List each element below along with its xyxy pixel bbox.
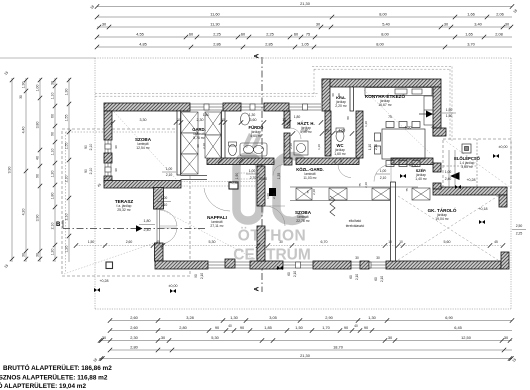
dimension column left col 4 <box>51 78 58 262</box>
svg-text:2,10: 2,10 <box>380 176 387 180</box>
room label KOZL-GARD <box>296 167 323 180</box>
svg-text:2,10: 2,10 <box>364 182 368 188</box>
svg-text:3,30: 3,30 <box>140 118 147 122</box>
partition wall partition gard-furdo <box>222 111 226 158</box>
svg-text:11,03 m²: 11,03 m² <box>303 176 317 180</box>
section line B-B <box>56 220 205 232</box>
svg-text:16,67 m²: 16,67 m² <box>378 103 392 107</box>
wall entry east wall upper <box>433 163 441 172</box>
wall south wall seg 2 <box>250 261 283 269</box>
room label SZOBA 1 <box>135 137 152 150</box>
wall south-east corner column <box>501 252 509 269</box>
svg-text:1,90: 1,90 <box>235 173 239 180</box>
svg-text:60: 60 <box>374 277 378 281</box>
room label HAZT H <box>297 121 314 134</box>
svg-text:1,50: 1,50 <box>446 108 453 112</box>
svg-text:1,30: 1,30 <box>65 89 69 96</box>
kitchen counter <box>365 88 432 96</box>
svg-text:90: 90 <box>84 145 88 149</box>
svg-text:1,40 m²: 1,40 m² <box>415 177 427 181</box>
svg-text:75: 75 <box>306 31 310 36</box>
svg-text:90: 90 <box>36 174 40 178</box>
svg-text:2,40: 2,40 <box>144 228 151 232</box>
wardrobe wardrobe 3 <box>372 188 390 200</box>
wall entry east wall lower <box>433 183 441 189</box>
svg-text:2,30: 2,30 <box>302 129 309 133</box>
svg-text:19,04 m²: 19,04 m² <box>435 217 449 221</box>
svg-text:2,30: 2,30 <box>197 118 204 122</box>
window window SZOBA2 south b <box>351 262 386 268</box>
insulation mark mark 6 <box>479 220 485 224</box>
terrace roof dashed rectangle <box>62 129 190 276</box>
svg-text:21,30: 21,30 <box>300 1 311 6</box>
wall south wall garage <box>386 261 501 269</box>
wall wall nappali-szoba lower <box>257 226 265 261</box>
svg-text:45: 45 <box>156 240 160 244</box>
svg-text:1,00: 1,00 <box>380 169 387 173</box>
svg-text:1,80: 1,80 <box>51 193 55 200</box>
room label KRA <box>335 95 347 108</box>
wall corridor north wall east <box>296 158 359 165</box>
svg-text:3,40: 3,40 <box>474 21 482 26</box>
svg-text:75: 75 <box>333 160 337 164</box>
partition wall KRA east partition <box>350 87 354 111</box>
garage diagonal cross <box>398 196 498 260</box>
terrace hip dotted <box>64 243 154 274</box>
svg-text:90: 90 <box>196 144 200 148</box>
wardrobe wardrobe 4 <box>412 188 430 200</box>
watermark logo OC <box>237 134 304 221</box>
svg-text:2,80: 2,80 <box>179 325 187 330</box>
partition wall partition szoba-gard <box>177 111 181 175</box>
svg-text:A: A <box>254 286 261 291</box>
wall wall wc-konyha <box>356 111 363 158</box>
svg-text:3,05: 3,05 <box>269 315 277 320</box>
dimension row bottom row A <box>108 315 514 323</box>
svg-text:10: 10 <box>399 240 403 244</box>
svg-text:4,85: 4,85 <box>139 41 147 46</box>
svg-text:BRUTTÓ ALAPTERÜLET: 186,86 m2: BRUTTÓ ALAPTERÜLET: 186,86 m2 <box>3 363 112 372</box>
svg-text:45: 45 <box>431 126 435 130</box>
svg-text:+0,28: +0,28 <box>99 279 108 283</box>
svg-text:B: B <box>56 222 61 228</box>
insulation mark mark 1 <box>94 288 100 292</box>
svg-text:6,70: 6,70 <box>321 240 328 244</box>
svg-text:30: 30 <box>51 81 55 85</box>
wall north wall kitchen <box>322 79 441 87</box>
terrace door opening cap <box>154 208 164 210</box>
svg-text:1,05: 1,05 <box>301 41 309 46</box>
svg-text:1,66: 1,66 <box>467 11 475 16</box>
svg-text:2,10: 2,10 <box>51 223 55 230</box>
svg-text:2,60: 2,60 <box>130 325 138 330</box>
svg-text:1,55: 1,55 <box>65 143 69 150</box>
svg-text:1,00: 1,00 <box>339 129 346 133</box>
svg-text:2,40: 2,40 <box>445 177 452 181</box>
svg-text:+0,18: +0,18 <box>478 207 487 211</box>
room label NAPPALI <box>207 215 227 228</box>
dimension column left col 5 <box>65 78 72 262</box>
svg-text:6,45: 6,45 <box>454 325 462 330</box>
wall corridor pier <box>284 158 292 165</box>
sliding partition zigzag <box>330 196 335 216</box>
svg-text:1,30: 1,30 <box>249 113 256 117</box>
dimension row bottom row B <box>108 325 512 333</box>
terrace door swing upper <box>160 210 177 226</box>
wardrobe gard closet 5 <box>205 135 221 158</box>
svg-text:3,80: 3,80 <box>36 122 40 129</box>
window window FURDO 1.30 <box>241 104 264 110</box>
SR20 beam dotted <box>238 172 257 174</box>
svg-text:2,20 m²: 2,20 m² <box>335 104 347 108</box>
svg-text:30: 30 <box>376 256 380 260</box>
svg-text:4,30: 4,30 <box>405 126 412 130</box>
window window SZOBA2 south a <box>283 262 313 268</box>
svg-text:5,40: 5,40 <box>382 21 390 26</box>
dimension row top row 1 <box>95 1 514 9</box>
wall east wall corner cap <box>433 128 446 136</box>
interior dim row ticks y122 <box>111 120 323 124</box>
svg-text:1,10: 1,10 <box>364 121 368 127</box>
svg-text:60: 60 <box>51 114 55 118</box>
svg-text:eltolható: eltolható <box>349 219 362 223</box>
svg-text:2,70: 2,70 <box>250 176 257 180</box>
svg-text:4,20: 4,20 <box>22 209 26 216</box>
svg-text:2,10: 2,10 <box>312 189 316 195</box>
entry steps <box>449 150 455 187</box>
dimension row top row 4 <box>95 31 512 39</box>
wall south wall west stub <box>155 243 164 261</box>
site boundary dotted rectangle <box>0 58 511 309</box>
roof slope diagonal SZOBA1 <box>114 112 176 179</box>
svg-text:4,40: 4,40 <box>22 127 26 134</box>
svg-text:12,50: 12,50 <box>461 335 472 340</box>
column SR20 <box>269 188 276 196</box>
svg-text:2,10: 2,10 <box>339 159 343 165</box>
svg-text:1,80: 1,80 <box>203 113 210 117</box>
svg-text:4,60 m²: 4,60 m² <box>250 134 262 138</box>
svg-text:2,25: 2,25 <box>516 232 523 236</box>
svg-text:3,90: 3,90 <box>36 215 40 222</box>
gard south wall thin <box>181 175 208 177</box>
svg-text:75: 75 <box>283 144 287 148</box>
wall KRA west wall <box>322 79 330 111</box>
svg-text:5,76 m²: 5,76 m² <box>193 136 205 140</box>
svg-text:1,10: 1,10 <box>317 144 321 150</box>
svg-text:1,20: 1,20 <box>51 171 55 178</box>
svg-text:12,54 m²: 12,54 m² <box>136 146 150 150</box>
furdo door swing <box>273 165 284 176</box>
svg-text:90: 90 <box>114 145 118 149</box>
svg-text:2,10: 2,10 <box>161 203 168 207</box>
svg-text:2,10: 2,10 <box>355 274 359 280</box>
svg-text:1,10: 1,10 <box>368 144 372 150</box>
room label SZEP <box>415 168 427 181</box>
window window GARD 1.80 <box>190 104 223 110</box>
svg-text:1,60 m²: 1,60 m² <box>334 152 346 156</box>
svg-text:8,00: 8,00 <box>381 31 389 36</box>
wall west wall lower <box>104 176 112 182</box>
svg-text:11,60: 11,60 <box>210 11 220 16</box>
wall south wall pier B <box>360 261 369 269</box>
svg-text:±0,00: ±0,00 <box>169 284 178 288</box>
roof slope diagonal NAPPALI <box>164 211 255 259</box>
room label KONYHA <box>365 92 405 107</box>
svg-text:90: 90 <box>114 168 118 172</box>
insulation mark mark 4 <box>400 174 406 178</box>
terrace door swing lower <box>160 228 177 244</box>
svg-text:ÖTTHON: ÖTTHON <box>238 228 306 245</box>
dimension row top row 3 <box>97 21 513 29</box>
room label GK TAROLO <box>428 206 457 221</box>
svg-text:18,70: 18,70 <box>333 344 344 349</box>
wardrobe wardrobe 2 <box>329 188 347 200</box>
svg-text:3,70: 3,70 <box>467 41 475 46</box>
svg-text:+0,28: +0,28 <box>466 178 475 182</box>
room label ELOLEPCSO <box>454 156 481 169</box>
svg-text:40: 40 <box>36 156 40 160</box>
insulation mark mark 7 <box>455 185 461 189</box>
roof overhang dotted lines <box>95 67 452 143</box>
interior dimension row <box>74 243 505 247</box>
window window NAPPALI south <box>208 262 250 268</box>
svg-text:2,10: 2,10 <box>65 214 69 221</box>
svg-text:2,60: 2,60 <box>126 240 133 244</box>
front door leaf <box>450 172 460 180</box>
chimney square <box>462 144 471 153</box>
svg-text:90: 90 <box>337 93 341 97</box>
svg-text:30: 30 <box>22 253 26 257</box>
svg-text:30: 30 <box>19 95 23 99</box>
window window SZOBA1 b <box>105 163 111 176</box>
svg-text:90: 90 <box>51 132 55 136</box>
svg-text:40: 40 <box>354 324 358 328</box>
insulation mark mark 1b <box>170 289 176 293</box>
dimension row bottom row D <box>108 344 512 352</box>
section line A-A <box>261 57 263 292</box>
svg-text:10: 10 <box>388 240 392 244</box>
svg-text:2,60: 2,60 <box>130 315 138 320</box>
svg-text:30: 30 <box>36 253 40 257</box>
window window SZOBA1 a <box>105 140 111 153</box>
svg-text:21,30: 21,30 <box>300 353 311 358</box>
svg-text:1,20: 1,20 <box>51 249 55 256</box>
wardrobe wardrobe 1 <box>296 188 312 200</box>
svg-text:22,78 m²: 22,78 m² <box>296 219 310 223</box>
svg-text:3,28: 3,28 <box>186 315 194 320</box>
svg-text:75: 75 <box>306 190 310 194</box>
wardrobe gard closet 2 <box>181 133 198 154</box>
svg-text:1,80: 1,80 <box>294 115 301 119</box>
window window HAZT 1.80 <box>289 104 321 110</box>
svg-text:25,32 m²: 25,32 m² <box>117 208 131 212</box>
wc door swing <box>338 165 351 178</box>
roof slope diagonal KONYHA <box>364 90 431 154</box>
svg-text:2,10: 2,10 <box>89 144 93 151</box>
insulation mark mark 5 <box>493 154 499 158</box>
svg-text:1,55: 1,55 <box>65 115 69 122</box>
room label WC <box>334 143 346 156</box>
svg-text:2,30: 2,30 <box>130 335 138 340</box>
svg-text:térelválasztó: térelválasztó <box>346 224 365 228</box>
bathtub / basin FURDO <box>240 143 267 156</box>
washing machine HAZT <box>294 141 308 155</box>
svg-text:1,65: 1,65 <box>465 31 473 36</box>
svg-text:75: 75 <box>405 188 409 192</box>
wall wall furdo-hazt upper <box>284 111 290 128</box>
svg-text:3,65 m²: 3,65 m² <box>461 165 473 169</box>
svg-text:75: 75 <box>358 183 362 187</box>
svg-text:3,60: 3,60 <box>250 118 257 122</box>
svg-text:+0,30: +0,30 <box>408 164 417 168</box>
svg-text:1,00: 1,00 <box>166 167 173 171</box>
wall south wall pier A <box>225 259 235 268</box>
svg-text:10: 10 <box>177 118 181 122</box>
svg-text:±0,00: ±0,00 <box>499 145 508 149</box>
wall terrace east wall leg <box>154 188 164 210</box>
porch diagonal <box>443 139 511 188</box>
svg-text:1,50: 1,50 <box>88 240 95 244</box>
wall west wall upper <box>104 111 112 140</box>
toilet WC <box>336 128 344 142</box>
dimension row top row 2 <box>95 11 512 19</box>
svg-text:45: 45 <box>494 240 498 244</box>
svg-text:2,06: 2,06 <box>496 11 504 16</box>
dimension column left col 3 <box>36 78 43 262</box>
svg-text:8,00: 8,00 <box>376 41 384 46</box>
svg-text:1,35: 1,35 <box>277 173 281 180</box>
svg-text:2,10: 2,10 <box>89 168 93 175</box>
wardrobe gard closet 4 <box>205 112 221 135</box>
wall north wall pier 1 <box>223 103 241 111</box>
svg-text:2,86: 2,86 <box>213 41 221 46</box>
wall corridor north wall west <box>207 158 274 165</box>
wall wall hazt-wc <box>325 111 331 156</box>
svg-text:10: 10 <box>221 118 225 122</box>
szoba2 door swing <box>265 206 285 226</box>
toilet FURDO <box>229 142 237 156</box>
terrace sliding door track <box>156 209 158 246</box>
washbasin FURDO <box>241 113 250 125</box>
pillar SR20 support <box>229 182 238 189</box>
svg-text:+0,30: +0,30 <box>229 181 238 185</box>
room label TERASZ <box>115 199 134 212</box>
svg-text:1,30: 1,30 <box>230 315 238 320</box>
svg-text:1,50: 1,50 <box>446 114 453 118</box>
svg-text:10: 10 <box>325 129 329 133</box>
terrace pillar <box>106 262 113 269</box>
kitchen counter east <box>424 96 433 125</box>
wall south wall seg 3 <box>313 261 351 269</box>
wardrobe strip frame <box>290 187 418 201</box>
svg-text:1,00: 1,00 <box>445 170 452 174</box>
dimension row bottom row E <box>99 353 514 361</box>
entrance porch dashed outline <box>443 139 511 188</box>
svg-text:11,30: 11,30 <box>210 21 220 26</box>
svg-text:75: 75 <box>388 115 392 119</box>
svg-text:2,85: 2,85 <box>265 41 273 46</box>
svg-text:1,80: 1,80 <box>144 219 151 223</box>
svg-text:1,10: 1,10 <box>51 149 55 156</box>
svg-text:A: A <box>254 53 261 58</box>
svg-text:40: 40 <box>228 324 232 328</box>
svg-text:KONYHA-ÉTKEZŐ: KONYHA-ÉTKEZŐ <box>365 92 405 99</box>
hazt door swing <box>290 128 301 139</box>
svg-text:27,11 m²: 27,11 m² <box>210 224 224 228</box>
svg-text:2,80: 2,80 <box>130 344 138 349</box>
svg-text:1,30: 1,30 <box>368 315 376 320</box>
svg-text:2,10: 2,10 <box>200 273 204 279</box>
svg-text:60: 60 <box>349 275 353 279</box>
wall west wall pier <box>104 153 112 163</box>
dimension row top row 5 <box>95 41 512 49</box>
svg-text:2,10: 2,10 <box>374 144 378 150</box>
partition wall garage west partition <box>391 182 396 261</box>
wardrobe gard closet 3 <box>181 154 198 174</box>
insulation mark mark 3 <box>277 266 283 270</box>
room label GARD <box>192 127 206 140</box>
svg-text:5,60: 5,60 <box>444 240 451 244</box>
wall terrace north wall <box>104 181 181 189</box>
svg-text:1,20: 1,20 <box>65 246 69 253</box>
wall garage north wall <box>433 187 507 195</box>
hall door swing to nappali <box>204 188 230 211</box>
svg-text:90: 90 <box>84 169 88 173</box>
svg-text:30: 30 <box>355 256 359 260</box>
svg-text:1,10: 1,10 <box>51 93 55 100</box>
svg-text:30: 30 <box>279 240 283 244</box>
wall south wall kitchen east <box>391 158 433 165</box>
svg-text:10: 10 <box>282 118 286 122</box>
svg-text:8,00: 8,00 <box>379 11 387 16</box>
svg-text:2,50: 2,50 <box>516 224 523 228</box>
svg-text:1,70: 1,70 <box>322 325 330 330</box>
svg-text:ASZNOS ALAPTERÜLETE: 116,88 m2: ASZNOS ALAPTERÜLETE: 116,88 m2 <box>0 373 108 382</box>
room label SZOBA 2 <box>295 210 312 223</box>
dimension column left col 2 <box>22 78 29 262</box>
svg-text:1,00: 1,00 <box>249 169 256 173</box>
svg-text:1,85: 1,85 <box>264 325 272 330</box>
svg-text:60: 60 <box>331 93 335 97</box>
section marker B right <box>419 111 433 118</box>
dimension row bottom row C <box>98 335 512 343</box>
svg-text:2,10: 2,10 <box>272 193 276 199</box>
svg-text:60: 60 <box>287 272 291 276</box>
svg-text:1,00: 1,00 <box>161 196 168 200</box>
svg-text:9,90: 9,90 <box>8 167 12 174</box>
svg-text:5,30: 5,30 <box>211 335 219 340</box>
svg-text:1,30: 1,30 <box>22 82 26 89</box>
svg-text:4,55: 4,55 <box>136 31 144 36</box>
svg-text:2,10: 2,10 <box>166 173 173 177</box>
svg-text:Ó ALAPTERÜLETE: 19,04 m2: Ó ALAPTERÜLETE: 19,04 m2 <box>0 381 86 390</box>
svg-text:2,90: 2,90 <box>325 315 333 320</box>
wall wall furdo-hazt lower <box>284 133 290 158</box>
svg-text:1,00: 1,00 <box>36 85 40 92</box>
svg-text:2,10: 2,10 <box>65 176 69 183</box>
svg-text:2,25: 2,25 <box>213 31 221 36</box>
svg-text:1,50: 1,50 <box>295 325 303 330</box>
wall north wall pier 2 <box>264 103 289 111</box>
svg-text:5,30: 5,30 <box>209 240 216 244</box>
svg-text:6,90: 6,90 <box>445 315 453 320</box>
room label FURDO <box>249 125 265 138</box>
dimension column left col 1 <box>8 78 15 262</box>
svg-text:2,10: 2,10 <box>289 143 293 149</box>
wall north wall west segment <box>104 103 190 111</box>
wardrobe gard closet 1 <box>181 112 198 133</box>
wall south wall seg 1 <box>155 261 208 269</box>
